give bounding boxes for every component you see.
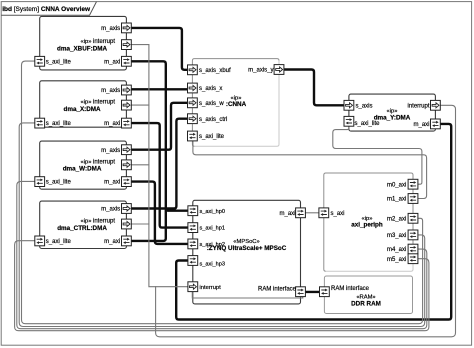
svg-text:m_axis: m_axis <box>101 88 120 94</box>
svg-text:dma_XBUF:DMA: dma_XBUF:DMA <box>57 46 107 53</box>
svg-text:interrupt: interrupt <box>407 103 429 109</box>
svg-text:s_axis_x: s_axis_x <box>199 86 222 92</box>
svg-text:m_axis: m_axis <box>101 207 120 213</box>
svg-text:m_axis_y: m_axis_y <box>248 68 273 74</box>
svg-text:s_axi_lite: s_axi_lite <box>46 121 72 127</box>
svg-text:axi_periph: axi_periph <box>351 222 383 229</box>
svg-text:m_axi: m_axi <box>279 211 295 217</box>
svg-text:RAM interface: RAM interface <box>331 286 370 292</box>
svg-text:s_axi_hp3: s_axi_hp3 <box>200 262 226 268</box>
svg-text:s_axi_lite: s_axi_lite <box>199 134 225 140</box>
svg-text:m0_axi: m0_axi <box>387 182 406 188</box>
svg-text:m_axi: m_axi <box>104 180 120 186</box>
svg-text:m_axi: m_axi <box>413 122 429 128</box>
svg-text:interrupt: interrupt <box>93 100 115 106</box>
svg-text:s_axis: s_axis <box>356 103 373 109</box>
svg-text:s_axi_lite: s_axi_lite <box>355 121 381 127</box>
svg-text:m3_axi: m3_axi <box>387 233 406 239</box>
svg-text:s_axis_ctrl: s_axis_ctrl <box>199 117 227 123</box>
svg-text:dma_CTRL:DMA: dma_CTRL:DMA <box>57 225 107 232</box>
svg-text:m_axis: m_axis <box>101 148 120 154</box>
svg-text:s_axi_hp0: s_axi_hp0 <box>200 209 226 215</box>
svg-text:m4_axi: m4_axi <box>387 247 406 253</box>
svg-text:m1_axi: m1_axi <box>387 197 406 203</box>
svg-text:interrupt: interrupt <box>93 219 115 225</box>
svg-text:interrupt: interrupt <box>93 39 115 45</box>
svg-text::ZYNQ UltraScale+ MPSoC: :ZYNQ UltraScale+ MPSoC <box>207 245 287 252</box>
svg-text:«ip»: «ip» <box>81 219 92 225</box>
svg-text:m5_axi: m5_axi <box>387 257 406 263</box>
svg-text:m_axi: m_axi <box>104 239 120 245</box>
svg-text:RAM interface: RAM interface <box>258 287 297 293</box>
svg-text:dma_X:DMA: dma_X:DMA <box>64 106 102 113</box>
svg-text:«ip»: «ip» <box>81 159 92 165</box>
svg-text:m_axis: m_axis <box>101 26 120 32</box>
svg-text:s_axis_w: s_axis_w <box>199 101 224 107</box>
svg-text:s_axi_lite: s_axi_lite <box>46 59 72 65</box>
svg-text:s_axis_xbuf: s_axis_xbuf <box>199 68 231 74</box>
svg-text:interrupt: interrupt <box>93 159 115 165</box>
svg-text:s_axi_hp1: s_axi_hp1 <box>200 226 226 232</box>
svg-text:m_axi: m_axi <box>104 59 120 65</box>
svg-text:«ip»: «ip» <box>81 39 92 45</box>
svg-text:DDR RAM: DDR RAM <box>351 300 381 307</box>
svg-text:s_axi_lite: s_axi_lite <box>46 180 72 186</box>
svg-text::CNNA: :CNNA <box>226 101 247 108</box>
svg-text:interrupt: interrupt <box>200 285 222 291</box>
svg-text:dma_W:DMA: dma_W:DMA <box>63 166 102 173</box>
svg-text:s_axi_lite: s_axi_lite <box>46 239 72 245</box>
svg-text:«ip»: «ip» <box>81 100 92 106</box>
svg-text:m2_axi: m2_axi <box>387 216 406 222</box>
svg-text:s_axi: s_axi <box>331 211 345 217</box>
svg-text:m_axi: m_axi <box>104 121 120 127</box>
svg-text:ibd [System] CNNA Overview: ibd [System] CNNA Overview <box>2 6 91 13</box>
